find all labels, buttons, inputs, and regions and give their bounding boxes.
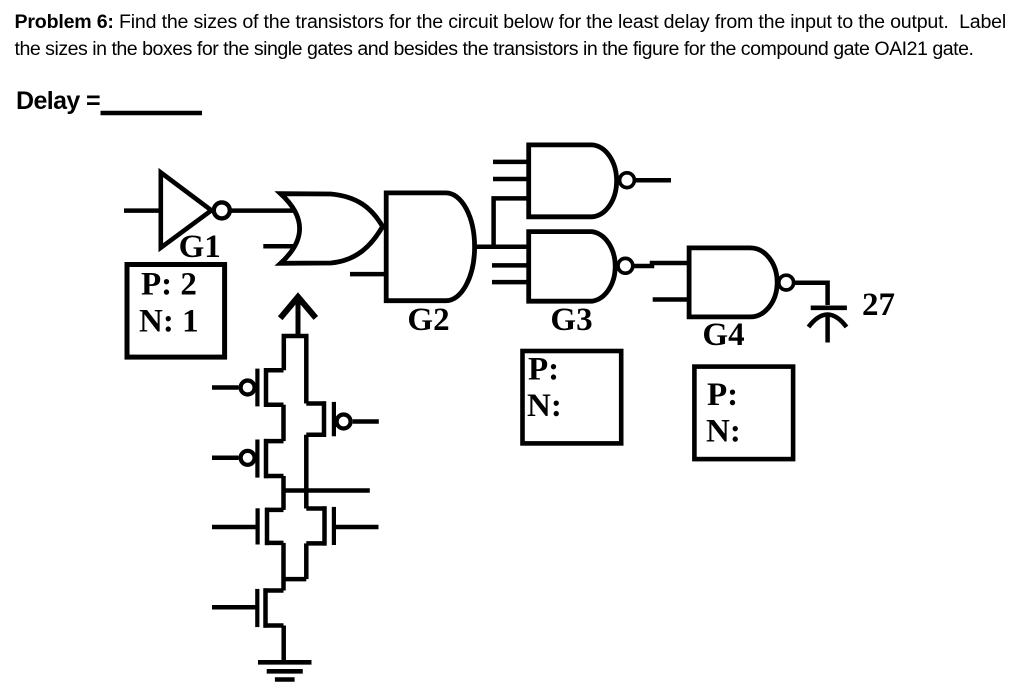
svg-text:N:: N:	[527, 388, 562, 424]
svg-text:N:: N:	[706, 414, 741, 450]
svg-text:P:: P:	[528, 352, 559, 388]
AND gate G2 body	[386, 193, 474, 301]
svg-text:P:: P:	[707, 377, 738, 413]
transistor M3 (PMOS, input C, right)	[306, 401, 379, 437]
inverter G1 triangle	[161, 173, 212, 248]
transistor M1 (PMOS, input A)	[212, 368, 284, 407]
capacitor top plate	[811, 305, 847, 310]
label P: 2	[141, 267, 197, 303]
transistor M2 (PMOS, input B)	[212, 439, 284, 478]
label G4	[702, 317, 744, 353]
wire: M3 drain down to output node	[304, 435, 309, 509]
transistor M4 (NMOS, left of parallel pair)	[212, 508, 284, 545]
wire: input to inverter G1	[124, 208, 162, 213]
sizing box for G3	[523, 351, 622, 443]
sizing box for G1	[127, 265, 225, 358]
wire: G3 output to G4 input	[634, 263, 688, 266]
wire: node X horizontal	[284, 577, 307, 582]
svg-text:N: 1: N: 1	[139, 304, 199, 340]
wire: G5 input stub 2	[493, 177, 528, 182]
wire: G3 input stub 2	[492, 263, 528, 268]
wire: M1 drain to M2 source	[281, 405, 286, 441]
svg-text:G2: G2	[407, 302, 449, 338]
svg-text:G4: G4	[702, 317, 744, 353]
wire: G2 output to G3 input	[474, 244, 528, 249]
svg-text:G3: G3	[550, 302, 592, 338]
wire: stub to OR gate lower input	[263, 244, 295, 249]
svg-text:G1: G1	[179, 229, 221, 265]
transistor M5 (NMOS, right of parallel pair)	[306, 506, 378, 545]
NAND G4 body	[689, 248, 777, 317]
inverter G1 output bubble	[214, 202, 230, 218]
NAND G5 output bubble	[620, 173, 635, 188]
NAND G4 output bubble	[779, 275, 794, 290]
wire: M6 source to ground	[281, 626, 286, 663]
wire: G3 input stub 3	[492, 280, 528, 285]
wire: G5 output stub	[636, 178, 672, 183]
wire: M4 source down to node X	[281, 543, 286, 591]
label 27 (load)	[862, 287, 895, 323]
wire: riser from G2 output up to NAND G5 third input	[494, 198, 528, 246]
sizing box for G4	[694, 367, 793, 460]
blank line under Delay =	[101, 111, 203, 116]
svg-text:27: 27	[862, 287, 895, 323]
wire: output node Y	[284, 488, 370, 493]
wire: G1 output to OR gate input	[231, 208, 296, 213]
wire: G4 output to load capacitor	[795, 283, 828, 305]
label N:	[527, 388, 562, 424]
transistor M6 (NMOS, bottom)	[212, 588, 284, 627]
VDD fork to PMOS branches	[284, 336, 307, 404]
NAND G3 body	[529, 232, 616, 302]
label G3	[550, 302, 592, 338]
capacitor curved bottom plate	[809, 315, 847, 328]
label N:	[706, 414, 741, 450]
label P:	[528, 352, 559, 388]
OR gate (input stage of compound gate)	[281, 194, 383, 264]
wire: stub to G2 lower input	[350, 272, 386, 277]
wire: M5 source down to node X	[304, 543, 309, 579]
capacitor bottom lead	[825, 315, 830, 343]
label G1	[179, 229, 221, 265]
NAND G3 output bubble	[618, 258, 633, 273]
label P:	[707, 377, 738, 413]
label G2	[407, 302, 449, 338]
ground symbol	[258, 662, 312, 679]
label N: 1	[139, 304, 199, 340]
wire: G4 input stub 2	[653, 297, 689, 302]
wire: G5 input stub 1	[493, 160, 528, 165]
wire: M2 drain down to output node	[281, 476, 286, 510]
NAND G5 (top, unlabeled) body	[529, 145, 617, 217]
svg-text:P: 2: P: 2	[141, 267, 197, 303]
VDD arrow	[280, 297, 316, 336]
